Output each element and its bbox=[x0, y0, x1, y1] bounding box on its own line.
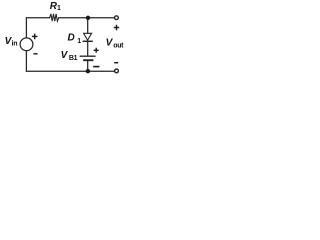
label D1 bbox=[68, 32, 82, 45]
diode D1 triangle bbox=[84, 33, 92, 40]
V_in plus sign bbox=[32, 34, 38, 40]
label VB1 bbox=[61, 50, 78, 62]
wire: top rail right segment (resistor to output terminal) bbox=[59, 17, 114, 19]
wire: bottom rail bbox=[26, 70, 114, 72]
output terminal top bbox=[115, 16, 119, 20]
battery plus sign bbox=[94, 48, 99, 53]
svg-text:B1: B1 bbox=[69, 55, 78, 62]
wire: battery to bottom rail bbox=[87, 61, 89, 72]
diode D1 cathode bar bbox=[83, 40, 93, 42]
svg-text:out: out bbox=[113, 42, 124, 49]
battery minus sign bbox=[93, 66, 99, 68]
svg-text:1: 1 bbox=[57, 5, 61, 12]
label R1 bbox=[50, 1, 61, 12]
wire: top rail left segment (corner to resistor) bbox=[26, 18, 49, 38]
V_out minus sign bbox=[114, 62, 118, 64]
label Vout bbox=[106, 38, 125, 50]
wire: diode branch upper (junction to diode) bbox=[87, 18, 89, 34]
junction node top bbox=[86, 16, 90, 20]
voltage source V_in bbox=[20, 38, 33, 51]
wire: left vertical below source bbox=[25, 51, 27, 71]
svg-text:V: V bbox=[61, 50, 69, 61]
label Vin bbox=[5, 36, 18, 47]
V_in minus sign bbox=[33, 53, 37, 55]
svg-text:in: in bbox=[12, 41, 18, 48]
resistor R1 bbox=[50, 14, 59, 21]
V_out plus sign bbox=[114, 25, 119, 30]
junction node bottom bbox=[86, 69, 90, 73]
battery V_B1 top plate bbox=[80, 55, 96, 57]
wire: diode to battery bbox=[87, 41, 89, 56]
svg-text:D: D bbox=[68, 32, 75, 43]
output terminal bottom bbox=[115, 69, 119, 73]
battery V_B1 bottom plate bbox=[83, 59, 93, 61]
svg-text:1: 1 bbox=[77, 38, 81, 45]
